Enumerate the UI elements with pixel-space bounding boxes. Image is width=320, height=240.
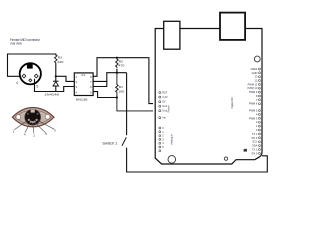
notch: [27, 63, 33, 68]
numbers: [13, 128, 56, 137]
MIDI DIN circle: [20, 63, 41, 84]
leader lines: [14, 121, 27, 130]
mounting hole right: [224, 157, 227, 160]
svg-text:IC1: IC1: [81, 73, 86, 77]
pin holes: [27, 113, 29, 115]
svg-text:Power: Power: [168, 105, 171, 112]
svg-text:R3: R3: [58, 55, 62, 59]
USB connector: [164, 21, 180, 49]
MIDI connector photo: [12, 108, 56, 138]
Arduino board outline: [155, 29, 262, 165]
svg-text:Vin: Vin: [162, 116, 166, 120]
screw hole right: [45, 114, 50, 119]
svg-text:PWM 9: PWM 9: [249, 90, 258, 94]
svg-text:10K: 10K: [118, 89, 125, 93]
resistor R1: [116, 73, 153, 111]
wire below switch to arduino RX: [127, 148, 268, 172]
svg-text:PWM 10: PWM 10: [247, 86, 258, 90]
right digital pins lower group: [259, 110, 261, 155]
svg-text:SDA: SDA: [252, 144, 258, 148]
svg-text:1N4148: 1N4148: [44, 92, 59, 96]
socket: [25, 109, 41, 125]
svg-text:470: 470: [118, 64, 124, 68]
left analog pins: [159, 127, 161, 152]
svg-text:GND: GND: [252, 71, 258, 75]
svg-text:TX 1: TX 1: [252, 132, 258, 136]
svg-text:5: 5: [36, 84, 38, 88]
reset button: [254, 56, 260, 62]
pin 4 (left): [22, 74, 26, 78]
svg-text:RST: RST: [162, 91, 168, 95]
svg-text:4: 4: [16, 81, 18, 85]
right digital pins upper group: [259, 68, 261, 105]
wire node to pin2 of IC: [56, 76, 75, 81]
svg-text:6N138: 6N138: [76, 97, 88, 101]
wire pin7 to node X: [93, 73, 127, 82]
svg-text:Digital I/O: Digital I/O: [231, 97, 234, 108]
ICSP header block: [244, 149, 247, 152]
svg-text:SCL: SCL: [252, 140, 258, 144]
svg-text:RX 0: RX 0: [252, 151, 258, 155]
svg-text:AREF: AREF: [250, 67, 257, 71]
wire pin6 to vertical: [93, 81, 107, 86]
wire R3 bottom to node: [55, 63, 57, 77]
wire pin8 to +5V rail: [93, 58, 153, 104]
pin 5 (right): [34, 74, 38, 78]
mounting hole left: [168, 156, 176, 164]
switch S1 "Switch 1": [122, 137, 126, 145]
svg-text:5V: 5V: [162, 100, 165, 104]
svg-text:Switch 1: Switch 1: [102, 142, 117, 146]
svg-text:PWM 5: PWM 5: [249, 109, 258, 113]
Female MIDI connector label: [10, 37, 40, 46]
svg-text:Analog In: Analog In: [171, 134, 174, 145]
resistor R3: [55, 55, 58, 63]
optocoupler IC1 6N138: [74, 73, 93, 96]
resistor R2: [116, 57, 118, 59]
svg-text:220: 220: [57, 60, 63, 64]
svg-text:RX 0: RX 0: [252, 136, 258, 140]
svg-text:PWM 3: PWM 3: [249, 116, 258, 120]
svg-text:3.3V: 3.3V: [162, 95, 168, 99]
svg-text:rear view: rear view: [10, 40, 22, 45]
wire node X down to switch: [126, 73, 128, 136]
notch top: [31, 109, 35, 112]
power jack: [220, 13, 245, 40]
pin 2 (bottom): [29, 79, 32, 82]
node A: R3/diode/pin2 junction: [55, 75, 57, 77]
outer eye shape: [12, 108, 54, 127]
screw hole left: [16, 115, 21, 120]
wire MIDI pin5 down to bottom wire: [35, 79, 75, 92]
wire pin5 of IC to ground net: [93, 92, 117, 98]
svg-text:PWM 11: PWM 11: [248, 82, 258, 86]
wire loop from MIDI pin 4 to R3: [8, 54, 56, 76]
left power pins: [159, 92, 161, 119]
svg-text:TX 1: TX 1: [252, 148, 258, 152]
svg-text:PWM 6: PWM 6: [249, 102, 258, 106]
diode D1 1N4148: [55, 76, 57, 81]
